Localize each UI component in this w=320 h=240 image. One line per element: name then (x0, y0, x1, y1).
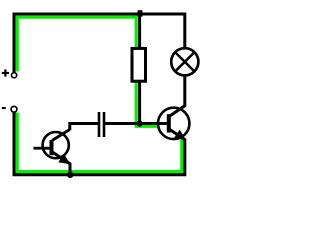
junction dot (top wire to resistor) (138, 10, 143, 16)
wire: top junction down to resistor R1 (138, 14, 141, 50)
wire (green highlight): from + terminal, along top, down through resistor, to Q2 base (17, 17, 166, 126)
junction dot (Q1 emitter on bottom wire) (67, 172, 73, 178)
Q1 base lead (open) (34, 147, 52, 150)
Q1 emitter arrow (58, 154, 70, 164)
transistor Q1 (left, NPN) (34, 130, 71, 175)
label + (2, 69, 9, 76)
wire: - terminal down, along bottom, up to Q2 emitter (14, 113, 185, 175)
terminal - (open circle) (11, 106, 17, 112)
wire (green highlight): from Q2 emitter, along bottom, up to - terminal (17, 113, 182, 172)
transistor Q2 (right, NPN) (140, 77, 190, 141)
Q2 base bar (167, 114, 171, 132)
Q1 emitter lead and wire down to bottom junction (52, 152, 70, 175)
wire: resistor R1 down to middle junction (138, 80, 141, 124)
capacitor C1 right plate (103, 112, 106, 137)
Q2 collector lead up to lamp (169, 77, 185, 117)
lamp L1 (171, 48, 198, 75)
terminal + (open circle) (12, 73, 17, 78)
Q1 base bar (50, 140, 54, 155)
resistor R1 (132, 48, 146, 81)
wire: capacitor right plate to middle junction (105, 122, 140, 125)
capacitor C1 left plate (98, 112, 101, 137)
label - (2, 107, 6, 109)
wire: + terminal up, along top, corner down to lamp (14, 14, 185, 72)
Q2 emitter arrow (174, 130, 186, 140)
Q2 base wire from middle junction (140, 122, 168, 125)
wire: Q1 collector corner to capacitor left plate (70, 124, 99, 131)
Q2 emitter lead (169, 129, 185, 140)
Q1 collector lead (52, 130, 70, 141)
junction dot (resistor / capacitor / Q2 base) (137, 120, 143, 126)
